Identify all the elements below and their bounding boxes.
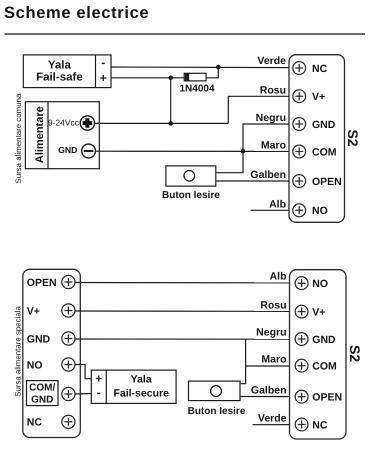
svg-text:Maro: Maro xyxy=(261,140,286,152)
svg-text:Fail-safe: Fail-safe xyxy=(36,72,83,84)
wire Galben: button to S2 OPEN xyxy=(216,180,293,182)
svg-text:1N4004: 1N4004 xyxy=(179,83,214,94)
S1 pin GND xyxy=(27,332,75,345)
S2 pin OPEN xyxy=(293,175,342,188)
svg-text:Scheme electrice: Scheme electrice xyxy=(4,4,149,22)
svg-text:Alb: Alb xyxy=(270,271,287,283)
svg-text:V+: V+ xyxy=(27,305,40,317)
junction dot on plus wire xyxy=(168,76,173,81)
svg-text:Alb: Alb xyxy=(269,198,286,210)
wire Negru: S2 GND down to Maro junction and button xyxy=(216,124,293,173)
S1 pin OPEN xyxy=(27,275,75,288)
wire supply positive line xyxy=(95,122,228,124)
svg-text:NC: NC xyxy=(312,63,328,75)
svg-text:Alimentare: Alimentare xyxy=(34,106,46,163)
svg-text:Fail-secure: Fail-secure xyxy=(113,388,169,400)
svg-text:S2: S2 xyxy=(347,345,363,362)
svg-text:+: + xyxy=(100,71,107,85)
diode D1 1N4004 xyxy=(184,73,206,81)
svg-text:+: + xyxy=(95,372,102,386)
svg-text:OPEN: OPEN xyxy=(27,277,57,289)
push button Buton Iesire xyxy=(166,166,216,186)
S2 pin NC (bottom) xyxy=(295,418,328,431)
svg-text:Verde: Verde xyxy=(258,413,287,425)
lock Yala Fail-secure xyxy=(91,370,176,403)
wire diode cathode up to Verde wire xyxy=(206,67,218,78)
svg-text:GND: GND xyxy=(27,333,51,345)
wire Maro: supply GND to S2 COM xyxy=(96,150,293,152)
svg-text:Sursa alimentare comuna: Sursa alimentare comuna xyxy=(14,93,23,184)
connector S1 (bottom left) xyxy=(23,269,81,437)
S2 pin NO (bottom) xyxy=(295,277,328,290)
svg-text:Rosu: Rosu xyxy=(260,84,286,96)
svg-text:GND: GND xyxy=(312,119,336,131)
S2 pin NO xyxy=(293,204,328,217)
svg-text:Yala: Yala xyxy=(131,374,152,386)
S2 pin GND xyxy=(293,118,336,131)
svg-text:Buton Iesire: Buton Iesire xyxy=(162,190,220,201)
svg-text:OPEN: OPEN xyxy=(312,392,342,404)
S2 pin OPEN (bottom) xyxy=(295,390,342,403)
svg-text:NO: NO xyxy=(312,278,328,290)
svg-text:Rosu: Rosu xyxy=(260,299,286,311)
wire Yala plus to diode anode xyxy=(111,77,184,79)
S1 pin COM/GND xyxy=(27,381,76,406)
push button Buton Iesire (bottom) xyxy=(189,381,241,401)
svg-text:Negru: Negru xyxy=(256,112,286,124)
wire Rosu riser and run to S2 V+ xyxy=(228,96,292,123)
svg-text:Verde: Verde xyxy=(257,55,286,67)
S2 pin COM xyxy=(293,145,337,158)
wire riser from Negru down to button xyxy=(240,339,246,384)
svg-text:Buton Iesire: Buton Iesire xyxy=(188,406,246,417)
svg-text:NC: NC xyxy=(27,417,43,429)
wire Verde stub to S2 NC (bottom) xyxy=(253,424,296,426)
wire Verde: Yala minus to S2 NC xyxy=(111,66,293,69)
wire Alb: S1 OPEN to S2 NO xyxy=(75,282,295,284)
svg-text:-: - xyxy=(101,55,105,69)
svg-text:COM: COM xyxy=(312,361,337,373)
svg-text:S2: S2 xyxy=(345,129,361,146)
junction dot on Verde wire above diode xyxy=(216,65,221,70)
S2 pin GND (bottom) xyxy=(295,333,336,346)
connector S2 (bottom right) xyxy=(290,270,347,439)
S1 pin NO xyxy=(27,358,75,371)
svg-text:GND: GND xyxy=(58,145,77,155)
S2 pin NC xyxy=(293,62,328,75)
svg-text:GND: GND xyxy=(31,395,53,406)
horizontal rule under title xyxy=(5,33,366,35)
svg-text:V+: V+ xyxy=(312,91,325,103)
svg-text:Galben: Galben xyxy=(251,384,287,396)
wire Alb stub to S2 NO xyxy=(251,209,294,211)
S2 pin V+ (bottom) xyxy=(295,305,325,318)
wire Negru: S1 GND to S2 GND xyxy=(75,338,295,340)
svg-text:COM: COM xyxy=(312,146,337,158)
svg-text:V+: V+ xyxy=(312,306,325,318)
S2 pin V+ xyxy=(293,90,325,103)
svg-text:-: - xyxy=(97,385,101,399)
wire S1 COM/GND to Yala Fail-secure minus xyxy=(75,393,91,396)
lock Yala Fail-safe xyxy=(23,55,111,88)
terminal plus of Alimentare xyxy=(80,116,94,130)
svg-text:NO: NO xyxy=(312,205,328,217)
S2 pin COM (bottom) xyxy=(295,359,337,372)
svg-text:Galben: Galben xyxy=(250,169,286,181)
svg-text:Negru: Negru xyxy=(256,327,286,339)
S1 pin NC xyxy=(27,415,75,428)
wire Rosu: S1 V+ to S2 V+ xyxy=(75,310,295,312)
S1 pin V+ xyxy=(27,304,75,317)
power supply Alimentare xyxy=(25,102,99,169)
svg-text:Yala: Yala xyxy=(48,59,72,71)
wire S1 NO to Yala Fail-secure plus xyxy=(75,365,91,379)
svg-text:NC: NC xyxy=(312,419,328,431)
svg-text:Sursa alimentare speciala: Sursa alimentare speciala xyxy=(14,305,23,396)
svg-text:GND: GND xyxy=(312,334,336,346)
wire Galben: button to S2 OPEN (bottom) xyxy=(240,396,295,398)
connector S2 (top) xyxy=(289,55,345,223)
svg-text:COM/: COM/ xyxy=(29,383,55,394)
junction dot on Maro wire xyxy=(241,149,246,154)
wire Maro: riser to S2 COM xyxy=(246,365,296,367)
svg-text:9-24Vcc: 9-24Vcc xyxy=(48,117,80,127)
svg-text:NO: NO xyxy=(27,359,43,371)
wire from plus junction down to supply positive line xyxy=(170,78,172,124)
svg-text:Maro: Maro xyxy=(261,354,286,366)
junction dot on supply positive line xyxy=(168,121,173,126)
terminal minus of Alimentare xyxy=(82,144,96,158)
svg-text:OPEN: OPEN xyxy=(312,176,342,188)
